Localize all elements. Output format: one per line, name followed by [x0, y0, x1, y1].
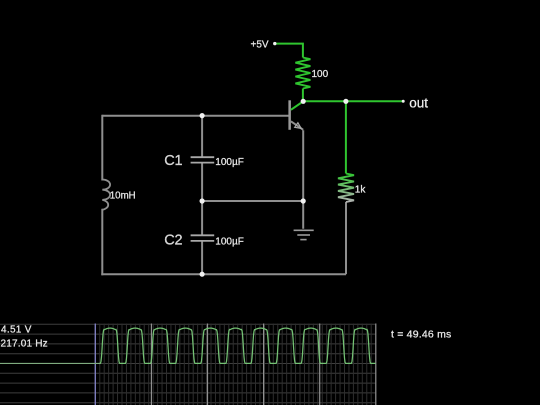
svg-text:+5V: +5V — [251, 39, 269, 50]
svg-text:t = 49.46 ms: t = 49.46 ms — [391, 329, 451, 341]
svg-text:4.51 V: 4.51 V — [1, 325, 32, 336]
svg-text:10mH: 10mH — [110, 191, 136, 202]
svg-text:1k: 1k — [355, 185, 367, 196]
svg-text:100: 100 — [312, 69, 329, 80]
svg-text:C1: C1 — [164, 153, 182, 169]
svg-text:out: out — [409, 96, 428, 111]
svg-text:100µF: 100µF — [215, 157, 244, 168]
svg-text:C2: C2 — [164, 232, 182, 248]
svg-text:100µF: 100µF — [215, 237, 244, 248]
svg-text:217.01 Hz: 217.01 Hz — [1, 338, 48, 349]
